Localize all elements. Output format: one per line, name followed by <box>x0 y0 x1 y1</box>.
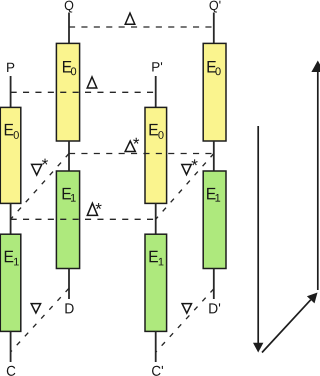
label Delta-star on junction line <box>125 141 135 152</box>
box E0 strand P' <box>145 107 167 203</box>
node P <box>7 63 14 72</box>
wire stem E1 to D' <box>213 269 215 300</box>
wire dashed diagonal nabla left (C to D) <box>11 288 69 351</box>
label Delta-star on lower junction line <box>87 203 97 215</box>
wire stem E1 to D <box>68 269 70 300</box>
box E0 strand Q <box>56 43 79 141</box>
wire dashed diagonal nabla-star right <box>156 154 214 220</box>
label Delta on Q-Q' <box>125 13 135 24</box>
wire dashed diagonal nabla-star left <box>11 154 69 220</box>
box E0 strand P <box>0 107 21 203</box>
label nabla-star left <box>32 164 42 175</box>
wire E0-E1 junction strand P <box>10 204 12 235</box>
wire dashed junction P strand to P' strand <box>11 218 156 220</box>
node Q' <box>210 1 221 13</box>
wire E0-E1 junction strand Q <box>68 141 70 171</box>
box E1 strand P' <box>145 234 167 331</box>
wire dashed Q-Q' <box>69 26 214 28</box>
arrow up (far right) <box>317 72 319 290</box>
arrow diagonal up-right <box>262 300 311 353</box>
wire stem E1 to C <box>10 331 12 362</box>
box E1 strand Q' <box>203 171 226 269</box>
wire stem Q to E0 <box>68 13 70 44</box>
arrow down (right side) <box>257 126 259 344</box>
wire stem P to E0 <box>10 76 12 107</box>
label nabla left <box>31 304 40 313</box>
node D <box>65 303 73 313</box>
wire E0-E1 junction strand Q' <box>213 141 215 171</box>
node C' <box>152 366 163 376</box>
node P' <box>152 62 162 71</box>
label nabla right <box>182 304 191 314</box>
wire dashed diagonal nabla right (C' to D') <box>156 289 214 352</box>
node Q <box>65 1 74 13</box>
wire stem P' to E0 <box>155 76 157 107</box>
box E1 strand P <box>0 234 21 331</box>
wire stem E1 to C' <box>155 331 157 362</box>
label Delta on P-P' <box>87 77 97 88</box>
wire dashed P-P' <box>11 91 156 93</box>
wire dashed junction Q strand to Q' strand <box>69 153 214 155</box>
wire stem Q' to E0 <box>213 13 215 44</box>
box E1 strand Q <box>56 171 79 269</box>
node D' <box>209 303 220 313</box>
label nabla-star right <box>182 165 191 175</box>
node C <box>7 366 16 376</box>
wire E0-E1 junction strand P' <box>155 204 157 235</box>
box E0 strand Q' <box>203 43 226 141</box>
